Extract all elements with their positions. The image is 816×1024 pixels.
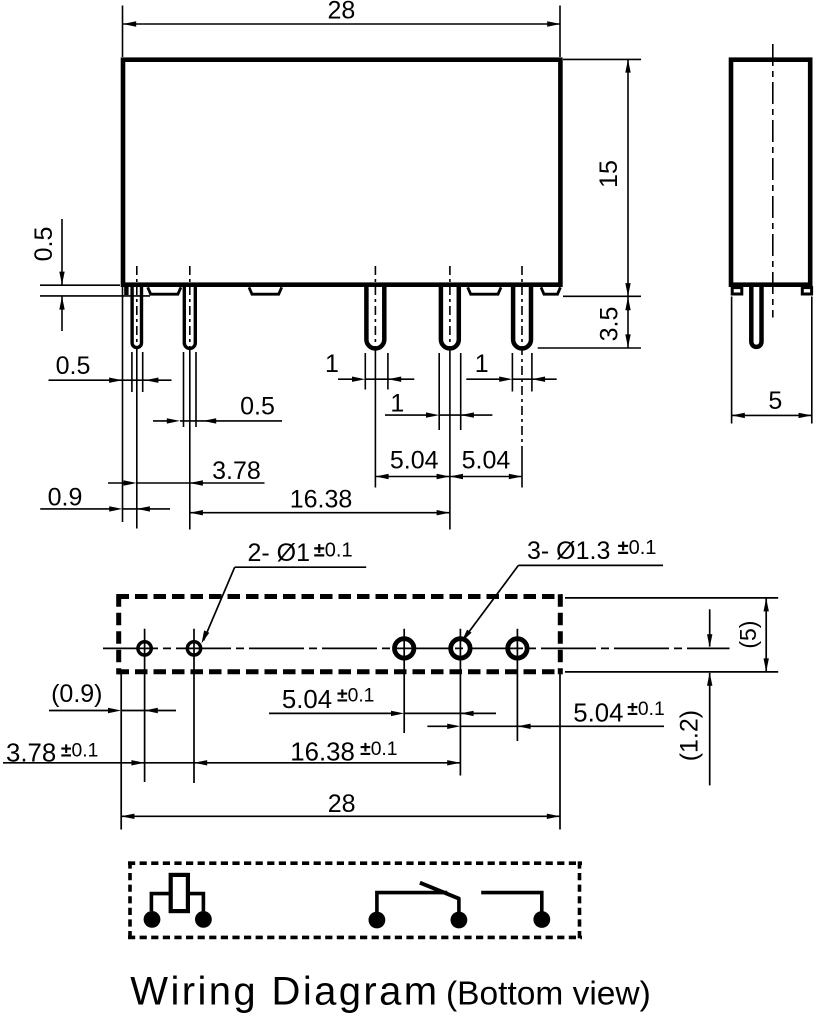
dim 28 arrow right bbox=[547, 21, 560, 26]
dim 15 arrow down bbox=[625, 283, 630, 296]
dim 1 pin3 arrow right bbox=[352, 377, 365, 382]
hole 5 (diam 1.3) bbox=[508, 639, 527, 658]
dim 0.9 arrow left bbox=[137, 506, 150, 511]
side view pin outline bbox=[751, 287, 761, 347]
dim 5.04 holes4-5 arrow right bbox=[447, 724, 460, 729]
dim 0.5 pin1 arrow right bbox=[109, 378, 122, 383]
dim 5.04 pin3-pin4 arrow right bbox=[437, 474, 450, 479]
dim (5) extension line top bbox=[565, 597, 778, 599]
common contact arm wire bbox=[375, 893, 447, 912]
dim 1 pin4 arrow left bbox=[461, 412, 474, 417]
dim 0.5 standoff extension line upper bbox=[40, 284, 120, 286]
dim (5) extension line bottom bbox=[565, 671, 778, 673]
coil box bbox=[171, 875, 188, 911]
pin 1 (coil) outline bbox=[132, 287, 141, 348]
svg-text:±0.1: ±0.1 bbox=[61, 741, 98, 762]
hole 3 (diam 1.3) bbox=[395, 639, 414, 658]
NO terminal dot bbox=[533, 911, 550, 928]
svg-text:Wiring Diagram: Wiring Diagram bbox=[130, 970, 439, 1014]
dim 5 extension lines bbox=[732, 297, 812, 424]
svg-text:3.78: 3.78 bbox=[6, 740, 56, 768]
label 3-diam1.3 underline bbox=[518, 564, 663, 566]
dim 15 extension line bottom (foot level) bbox=[563, 295, 641, 297]
coil left lead wire bbox=[151, 894, 170, 911]
dim 0.9 arrow right bbox=[109, 506, 122, 511]
relay body (front view) bbox=[123, 60, 560, 285]
dim (0.9) dimension line bbox=[49, 710, 176, 712]
dim 5.04 holes3-4 arrow left bbox=[460, 711, 473, 716]
bottom view dashed outline top edge bbox=[117, 594, 563, 599]
svg-text:±0.1: ±0.1 bbox=[618, 537, 657, 559]
side view right foot bbox=[802, 288, 811, 294]
label 2-diam1 underline bbox=[235, 566, 367, 568]
dim 1 pin5 arrow left bbox=[532, 377, 545, 382]
coil terminal dot right bbox=[195, 911, 212, 928]
pin 2 (coil) outline bbox=[184, 287, 195, 348]
dim (1.2) arrow up bbox=[707, 673, 712, 686]
svg-text:16.38: 16.38 bbox=[290, 739, 355, 767]
dim 3.5 extension line bottom (pin tip level) bbox=[538, 347, 641, 349]
dim 5.04 pin4-pin5 arrow right bbox=[509, 474, 522, 479]
dim 5.04 pin3-pin4 dimension line bbox=[375, 476, 449, 478]
bottom view dashed outline bottom edge bbox=[117, 669, 563, 674]
dim 0.5 pin1 arrow left bbox=[145, 378, 158, 383]
dim 28 bottom arrow left bbox=[121, 814, 134, 819]
dim 0.5 pin2 dimension line bbox=[153, 420, 282, 422]
svg-text:28: 28 bbox=[327, 0, 355, 25]
horizontal centerline through holes bbox=[103, 647, 730, 649]
svg-text:5.04: 5.04 bbox=[462, 446, 511, 474]
dim (5) dimension line bbox=[765, 598, 767, 672]
svg-text:±0.1: ±0.1 bbox=[627, 699, 664, 720]
dim 3.78 / 16.38 arrow at hole2 bbox=[194, 760, 207, 765]
dim 0.5 pin2 arrow right bbox=[167, 418, 180, 423]
hole 5 vertical centerline bbox=[516, 629, 518, 741]
svg-text:3- Ø1.3: 3- Ø1.3 bbox=[527, 537, 610, 565]
dim 1 pin4 arrow right bbox=[426, 412, 439, 417]
svg-text:(0.9): (0.9) bbox=[51, 680, 102, 708]
hole 1 vertical centerline bbox=[144, 629, 146, 782]
dim 5 arrow right bbox=[799, 413, 812, 418]
dim 0.5 standoff dimension line upper tail bbox=[61, 219, 63, 285]
svg-text:1: 1 bbox=[325, 350, 339, 378]
dim 5.04 holes4-5 dimension line bbox=[427, 725, 664, 727]
dim 1 pin3 dimension line bbox=[338, 378, 414, 380]
standoff foot 1 bbox=[148, 287, 181, 294]
svg-text:1: 1 bbox=[475, 350, 489, 378]
dim 15 dimension line bbox=[627, 59, 629, 296]
svg-text:(5): (5) bbox=[735, 621, 761, 649]
dim 15 arrow up bbox=[625, 59, 630, 72]
svg-text:16.38: 16.38 bbox=[290, 486, 353, 514]
svg-text:0.9: 0.9 bbox=[48, 483, 83, 511]
pin 3 (contact) outline bbox=[366, 287, 384, 348]
wiring diagram dashed box top edge bbox=[128, 861, 582, 865]
hole 2 (diam 1) bbox=[187, 642, 200, 655]
svg-text:3.78: 3.78 bbox=[212, 457, 261, 485]
hole 4 (diam 1.3) bbox=[451, 639, 470, 658]
dim 0.5 standoff arrow down bbox=[59, 272, 64, 285]
svg-text:±0.1: ±0.1 bbox=[337, 686, 374, 707]
label 3-diam1.3 leader line bbox=[464, 565, 518, 638]
label 2-diam1 leader line bbox=[204, 567, 235, 640]
dim (5) arrow down bbox=[764, 658, 769, 671]
hole 2 vertical centerline bbox=[193, 629, 195, 783]
pin 4 (contact) outline bbox=[441, 287, 459, 348]
pin 2 edge extension lines bbox=[184, 352, 197, 427]
svg-text:2- Ø1: 2- Ø1 bbox=[248, 539, 311, 567]
dim 0.5 standoff extension line lower bbox=[40, 295, 150, 297]
dim 0.5 standoff arrow up bbox=[59, 296, 64, 309]
dim (1.2) upper dimension line bbox=[709, 609, 711, 646]
coil terminal dot left bbox=[144, 911, 161, 928]
dim 5.04 pin3-pin4 arrow left bbox=[375, 474, 388, 479]
dim 28 arrow left bbox=[123, 21, 136, 26]
dim 28 top dimension line bbox=[123, 23, 560, 25]
dim 5 arrow left bbox=[732, 413, 745, 418]
svg-text:5.04: 5.04 bbox=[390, 446, 439, 474]
dim 3.78 arrow left bbox=[190, 480, 203, 485]
pin 5 edge extension lines bbox=[512, 353, 532, 392]
bottom view dashed outline left edge bbox=[116, 594, 121, 674]
wiring diagram dashed box bottom edge bbox=[128, 936, 582, 940]
standoff foot 3 bbox=[468, 287, 501, 294]
svg-text:(1.2): (1.2) bbox=[676, 710, 704, 761]
pin 4 edge extension lines bbox=[439, 353, 461, 430]
dim 16.38 front dimension line bbox=[190, 512, 450, 514]
switch blade (slanted) bbox=[420, 883, 460, 899]
dim 3.78 / 16.38 chained dimension line bbox=[3, 762, 460, 764]
label 2-diam1 leader arrow bbox=[202, 630, 210, 643]
standoff foot 2 bbox=[249, 287, 282, 294]
dim 1 pin5 dimension line bbox=[466, 378, 556, 380]
svg-text:15: 15 bbox=[595, 160, 623, 188]
hole 3 vertical centerline bbox=[403, 629, 405, 733]
dim 5 dimension line bbox=[732, 414, 812, 416]
dim (1.2) arrow down bbox=[707, 634, 712, 647]
dim 3.78 arrow right at hole1 bbox=[131, 760, 144, 765]
dim 5.04 holes3-4 dimension line bbox=[269, 712, 496, 714]
pin 5 centerline bbox=[521, 266, 523, 455]
dim 0.5 pin1 dimension line bbox=[49, 379, 172, 381]
pin 5 (contact) outline bbox=[513, 287, 531, 348]
NC terminal lead bbox=[457, 898, 461, 913]
dim 1 pin4 dimension line bbox=[385, 414, 492, 416]
dim (0.9) arrow right bbox=[108, 708, 121, 713]
wiring diagram dashed box left edge bbox=[128, 861, 132, 939]
dim 5.04 holes4-5 arrow left bbox=[517, 724, 530, 729]
dim 1 pin3 arrow left bbox=[388, 377, 401, 382]
pin 4 centerline bbox=[449, 266, 451, 350]
svg-text:0.5: 0.5 bbox=[56, 352, 91, 380]
svg-text:3.5: 3.5 bbox=[596, 307, 624, 342]
dim 28 bottom arrow right bbox=[547, 814, 560, 819]
pin 2 centerline bbox=[189, 266, 191, 348]
dim 0.5 standoff dimension line lower tail bbox=[61, 297, 63, 332]
dim 1 pin5 arrow right bbox=[499, 377, 512, 382]
relay body (side view) bbox=[731, 60, 810, 285]
bottom view left edge extension line bbox=[120, 674, 122, 830]
dim 3.5 dimension line bbox=[627, 296, 629, 348]
svg-text:28: 28 bbox=[328, 790, 356, 818]
dim 16.38 arrow right bbox=[437, 510, 450, 515]
side view left foot bbox=[732, 288, 742, 294]
svg-text:5: 5 bbox=[768, 387, 782, 415]
body left edge extension line bbox=[122, 287, 124, 522]
svg-text:(Bottom view): (Bottom view) bbox=[446, 976, 651, 1013]
dim (5) arrow up bbox=[764, 598, 769, 611]
dim 15 extension line top bbox=[563, 58, 641, 60]
dim 3.78 arrow right bbox=[124, 480, 137, 485]
svg-text:5.04: 5.04 bbox=[282, 686, 332, 714]
wiring diagram dashed box right edge bbox=[578, 861, 582, 939]
dim 5.04 holes3-4 arrow right bbox=[391, 711, 404, 716]
dim 16.38 arrow right at hole4 bbox=[447, 760, 460, 765]
svg-text:±0.1: ±0.1 bbox=[314, 540, 353, 562]
pin 1 edge extension lines bbox=[132, 352, 143, 392]
bottom view dashed outline right edge bbox=[558, 594, 563, 674]
standoff foot 4 at right corner bbox=[541, 287, 560, 294]
label 3-diam1.3 leader arrow bbox=[462, 630, 472, 642]
coil right lead wire bbox=[188, 894, 204, 911]
dim 3.5 arrow down bbox=[625, 334, 630, 347]
svg-text:1: 1 bbox=[390, 390, 404, 418]
bottom view right edge extension line bbox=[559, 674, 561, 830]
svg-text:±0.1: ±0.1 bbox=[360, 739, 397, 760]
dim 5.04 pin4-pin5 arrow left bbox=[450, 474, 463, 479]
NO contact wire bbox=[481, 893, 542, 912]
dim 0.9 dimension line bbox=[40, 508, 170, 510]
svg-text:0.5: 0.5 bbox=[240, 392, 275, 420]
svg-text:0.5: 0.5 bbox=[30, 227, 58, 262]
dim (0.9) arrow left bbox=[145, 708, 158, 713]
dim 5.04 pin4-pin5 dimension line bbox=[450, 476, 522, 478]
dim 16.38 arrow left bbox=[190, 510, 203, 515]
dim 0.5 pin2 arrow left bbox=[203, 418, 216, 423]
NC terminal dot bbox=[451, 912, 468, 929]
pin 3 edge extension lines bbox=[365, 353, 388, 390]
pin 3 centerline bbox=[374, 266, 376, 350]
dim 3.78 dimension line bbox=[108, 482, 265, 484]
svg-text:5.04: 5.04 bbox=[573, 699, 623, 727]
dim 28 bottom dimension line bbox=[121, 815, 560, 817]
side view vertical centerline bbox=[772, 44, 774, 318]
hole 4 vertical centerline bbox=[459, 629, 461, 776]
common terminal dot bbox=[369, 912, 386, 929]
dim (1.2) lower dimension line bbox=[709, 673, 711, 786]
dim 3.5 arrow up bbox=[625, 297, 630, 310]
dim 28 top extension lines bbox=[123, 6, 561, 58]
hole 1 (diam 1) bbox=[138, 642, 151, 655]
standoff foot sliver at left corner bbox=[124, 287, 128, 295]
pin 1 centerline bbox=[136, 266, 138, 348]
